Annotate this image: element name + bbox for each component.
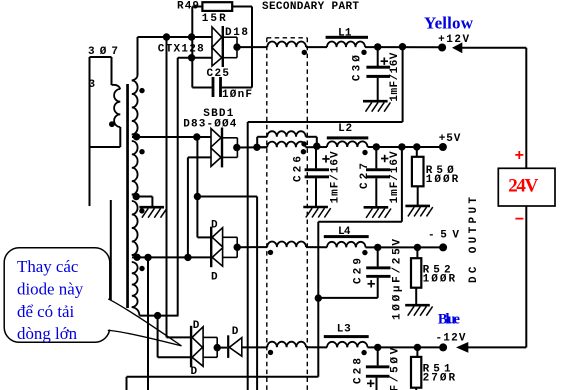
svg-text:DC OUTPUT: DC OUTPUT	[468, 197, 480, 283]
svg-text:24V: 24V	[508, 176, 538, 197]
svg-text:C27: C27	[359, 163, 371, 189]
svg-text:+12V: +12V	[438, 34, 469, 46]
svg-text:D: D	[211, 271, 218, 283]
svg-text:Yellow: Yellow	[424, 13, 474, 32]
svg-text:1mF/16V: 1mF/16V	[389, 151, 401, 203]
svg-text:để có tải: để có tải	[17, 302, 75, 321]
svg-text:1ØØµF/25V: 1ØØµF/25V	[391, 239, 403, 320]
svg-text:−: −	[515, 211, 525, 229]
svg-text:15R: 15R	[202, 13, 226, 25]
svg-text:-5V: -5V	[428, 230, 459, 242]
svg-text:L2: L2	[338, 123, 352, 135]
svg-text:+5V: +5V	[439, 133, 461, 145]
svg-text:+: +	[515, 147, 525, 165]
svg-text:C28: C28	[353, 358, 365, 384]
svg-text:1mF/16V: 1mF/16V	[329, 151, 341, 203]
svg-text:-12V: -12V	[436, 332, 466, 344]
svg-text:C25: C25	[207, 68, 230, 80]
svg-text:1mF/16V: 1mF/16V	[389, 52, 401, 101]
svg-text:D: D	[232, 326, 239, 338]
svg-text:Blue: Blue	[438, 312, 461, 328]
svg-text:diode này: diode này	[17, 279, 84, 298]
svg-text:C29: C29	[353, 258, 365, 284]
svg-text:1ØØR: 1ØØR	[426, 174, 459, 186]
svg-text:Thay các: Thay các	[17, 257, 78, 276]
svg-text:C3Ø: C3Ø	[352, 55, 364, 81]
svg-text:27ØR: 27ØR	[423, 373, 456, 385]
svg-text:L3: L3	[337, 323, 351, 335]
svg-text:SECONDARY PART: SECONDARY PART	[262, 1, 359, 13]
svg-text:1ØØR: 1ØØR	[423, 273, 456, 285]
svg-text:C26: C26	[293, 156, 305, 182]
svg-text:dòng lớn: dòng lớn	[17, 324, 78, 343]
svg-text:CTX128: CTX128	[158, 44, 204, 56]
svg-text:1ØnF: 1ØnF	[222, 89, 252, 101]
